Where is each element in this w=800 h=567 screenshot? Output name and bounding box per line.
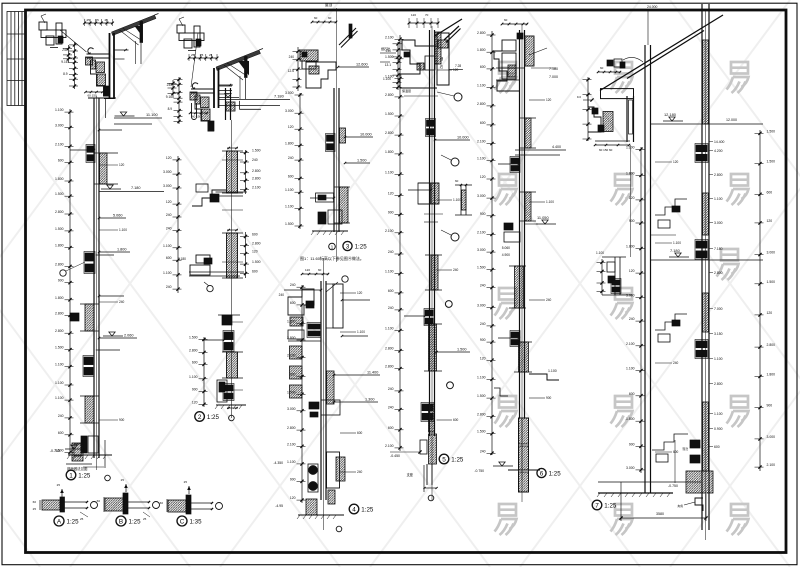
strip5 step leader — [529, 374, 559, 380]
d7 level line mid — [651, 259, 763, 261]
svg-text:3.000: 3.000 — [767, 251, 776, 255]
svg-text:1.500: 1.500 — [767, 129, 776, 133]
svg-text:900: 900 — [119, 418, 125, 422]
strip 5 wall — [474, 30, 566, 502]
svg-text:3.000: 3.000 — [477, 304, 486, 308]
svg-text:3.000: 3.000 — [626, 293, 635, 297]
svg-text:600: 600 — [480, 121, 486, 125]
chimney hatch segments — [703, 40, 709, 124]
E6 gutter bar — [601, 89, 634, 99]
strip2 beam blob — [222, 315, 232, 325]
strip5 window2 — [511, 332, 519, 338]
strip 3b dim row — [301, 268, 329, 275]
title binding table — [7, 12, 26, 106]
strip5 floor lines — [515, 149, 566, 151]
svg-text:1.500: 1.500 — [385, 112, 394, 116]
svg-text:900: 900 — [58, 279, 64, 283]
svg-text:1.500: 1.500 — [287, 390, 296, 394]
strip2 hatch column 1 — [227, 151, 238, 193]
svg-text:1.800: 1.800 — [55, 244, 64, 248]
svg-text:240: 240 — [388, 406, 394, 410]
svg-text:1:25: 1:25 — [67, 519, 80, 526]
extra leaders strip3b — [340, 292, 356, 294]
svg-text:1.800: 1.800 — [285, 142, 294, 146]
strip 1 wall — [50, 98, 164, 459]
E4 parapet column — [437, 33, 449, 85]
E6 column — [626, 96, 628, 142]
extra leaders strip1 — [99, 164, 118, 166]
strip3b window detail — [308, 324, 320, 329]
svg-text:120: 120 — [166, 200, 172, 204]
svg-text:240: 240 — [453, 268, 459, 272]
strip1 base hatch block — [72, 443, 83, 461]
svg-text:25: 25 — [87, 18, 91, 22]
strip 4 wall — [385, 30, 470, 492]
svg-text:1.100: 1.100 — [385, 170, 394, 174]
svg-text:1.100: 1.100 — [287, 460, 296, 464]
extra leaders strip5 — [529, 99, 545, 101]
svg-text:现浇: 现浇 — [682, 447, 688, 451]
svg-text:1.100: 1.100 — [477, 375, 486, 379]
svg-text:600: 600 — [288, 174, 294, 178]
svg-text:2.800: 2.800 — [189, 349, 198, 353]
strip2 left chain top — [177, 156, 179, 293]
svg-text:1.100: 1.100 — [714, 197, 723, 201]
svg-text:1.100: 1.100 — [546, 200, 554, 204]
svg-text:1.100: 1.100 — [385, 74, 394, 78]
strip4 slab cluster — [418, 183, 430, 204]
svg-text:图1：11.60标高以下参见图④做法。: 图1：11.60标高以下参见图④做法。 — [300, 255, 364, 261]
svg-text:900: 900 — [480, 212, 486, 216]
svg-text:3580: 3580 — [656, 512, 664, 516]
svg-text:2.800: 2.800 — [385, 131, 394, 135]
svg-text:2.800: 2.800 — [55, 311, 64, 315]
svg-text:900: 900 — [767, 404, 773, 408]
svg-text:-0.750: -0.750 — [668, 484, 678, 488]
plan detail B — [97, 478, 160, 521]
extra cross ticks strip2 — [222, 159, 243, 161]
E2 drain pipe — [191, 103, 193, 117]
svg-text:1.300: 1.300 — [365, 398, 375, 402]
strip3a base — [318, 212, 326, 224]
strip1 left slab — [85, 304, 94, 331]
svg-text:600: 600 — [388, 426, 394, 430]
svg-text:2.800: 2.800 — [55, 263, 64, 267]
detail label 5 — [439, 454, 449, 464]
svg-text:1.100: 1.100 — [477, 83, 486, 87]
svg-text:120: 120 — [192, 400, 198, 404]
E6 continuation — [630, 145, 632, 257]
svg-text:120: 120 — [673, 160, 679, 164]
svg-text:240: 240 — [119, 300, 125, 304]
svg-text:240: 240 — [480, 284, 486, 288]
svg-text:1.100: 1.100 — [55, 363, 64, 367]
svg-text:3.000: 3.000 — [626, 466, 635, 470]
svg-text:石: 石 — [440, 65, 443, 69]
section strip 1 axis — [96, 96, 98, 470]
svg-text:60: 60 — [160, 501, 164, 505]
svg-text:1: 1 — [69, 472, 73, 479]
svg-text:1.100: 1.100 — [55, 108, 64, 112]
svg-text:60: 60 — [504, 18, 508, 22]
svg-text:1.800: 1.800 — [385, 150, 394, 154]
svg-text:3.000: 3.000 — [714, 221, 723, 225]
strip5 lower hatched column — [519, 418, 529, 444]
strip4 roof diagonal — [444, 26, 459, 40]
svg-text:120: 120 — [629, 269, 635, 273]
strip2 tick row top — [227, 147, 238, 149]
eave detail E3 — [288, 16, 369, 91]
strip3b left hatch blocks — [290, 346, 303, 359]
svg-text:600: 600 — [290, 301, 296, 305]
svg-text:1.500: 1.500 — [55, 227, 64, 231]
svg-text:900: 900 — [480, 338, 486, 342]
strip3b base piers — [309, 466, 318, 475]
svg-text:屋顶: 屋顶 — [325, 2, 333, 7]
svg-text:11.400: 11.400 — [367, 371, 378, 375]
svg-text:1.100: 1.100 — [596, 251, 604, 255]
svg-text:2.800: 2.800 — [385, 347, 394, 351]
detail label 1 — [66, 470, 76, 480]
strip2 hatch column 2 — [227, 233, 238, 278]
svg-text:1.100: 1.100 — [285, 205, 294, 209]
svg-text:120: 120 — [166, 156, 172, 160]
svg-text:60: 60 — [455, 179, 459, 183]
svg-text:1.100: 1.100 — [163, 271, 172, 275]
svg-text:1.100: 1.100 — [453, 198, 461, 202]
strip 5 axis — [521, 24, 523, 480]
eave detail E1 — [39, 14, 162, 125]
svg-text:240: 240 — [166, 227, 172, 231]
strip2 right chain 1 — [245, 150, 247, 194]
svg-text:25: 25 — [121, 478, 125, 482]
svg-text:2.060: 2.060 — [124, 334, 134, 338]
svg-text:4.900: 4.900 — [502, 253, 510, 257]
svg-text:2.800: 2.800 — [385, 93, 394, 97]
svg-text:120: 120 — [767, 219, 773, 223]
svg-text:240: 240 — [673, 361, 679, 365]
svg-text:2: 2 — [198, 414, 202, 421]
svg-text:5.060: 5.060 — [113, 214, 123, 218]
strip1 lower slab — [85, 396, 94, 423]
strip1 level line 7.180 — [99, 191, 164, 193]
svg-text:8.9: 8.9 — [63, 72, 68, 76]
svg-text:1:25: 1:25 — [78, 473, 91, 480]
svg-text:3.000: 3.000 — [285, 109, 294, 113]
d7 step details between walls — [651, 199, 688, 462]
svg-text:2.800: 2.800 — [477, 102, 486, 106]
svg-text:1.800: 1.800 — [626, 245, 635, 249]
svg-text:7.180: 7.180 — [714, 247, 723, 251]
svg-text:1.500: 1.500 — [477, 394, 486, 398]
svg-text:900: 900 — [629, 219, 635, 223]
strip2 left chain low — [203, 337, 205, 407]
svg-text:B: B — [119, 518, 123, 525]
svg-text:120: 120 — [252, 250, 258, 254]
svg-text:3.000: 3.000 — [287, 407, 296, 411]
strip2 window1 — [224, 332, 233, 340]
strip3b sill — [309, 402, 319, 409]
svg-text:支座: 支座 — [407, 472, 414, 477]
svg-text:120: 120 — [453, 68, 459, 72]
svg-text:7.000: 7.000 — [549, 75, 558, 79]
svg-text:1.100: 1.100 — [477, 157, 486, 161]
svg-text:2.100: 2.100 — [626, 342, 635, 346]
d7 mid-left sill detail — [596, 251, 632, 295]
svg-text:240: 240 — [252, 158, 258, 162]
svg-text:1.100: 1.100 — [189, 375, 198, 379]
svg-text:11.050: 11.050 — [537, 215, 549, 220]
strip1 leader 2.060 — [99, 337, 137, 339]
svg-text:240: 240 — [388, 306, 394, 310]
svg-text:-4.350: -4.350 — [273, 461, 283, 465]
svg-text:1.100: 1.100 — [55, 381, 64, 385]
strip 4 axis — [431, 26, 433, 500]
svg-text:1.100: 1.100 — [626, 145, 635, 149]
svg-text:13.1: 13.1 — [385, 63, 391, 67]
svg-text:70: 70 — [425, 13, 429, 17]
svg-text:1:25: 1:25 — [355, 244, 368, 251]
d7 sill bottom — [690, 440, 700, 448]
svg-text:7.180: 7.180 — [549, 67, 558, 71]
svg-text:240: 240 — [386, 49, 392, 53]
detail label 6 — [537, 468, 546, 477]
svg-text:-0.450: -0.450 — [390, 454, 400, 458]
strip5 dims — [491, 31, 493, 455]
strip1 window w1 — [87, 146, 94, 152]
svg-text:600: 600 — [357, 431, 363, 435]
svg-text:600: 600 — [192, 360, 198, 364]
detail label 7 — [592, 500, 602, 510]
svg-text:60: 60 — [600, 66, 604, 70]
strip1 base — [81, 436, 87, 453]
svg-text:120: 120 — [290, 496, 296, 500]
section strip 2 axis — [231, 120, 233, 418]
d7 bottom dim — [620, 482, 622, 521]
svg-text:240: 240 — [388, 387, 394, 391]
E4 stepped profile — [400, 40, 437, 88]
svg-text:600: 600 — [629, 392, 635, 396]
svg-text:25: 25 — [200, 53, 204, 57]
svg-text:3.000: 3.000 — [163, 170, 172, 174]
svg-text:1.500: 1.500 — [457, 348, 467, 352]
strip2 base cluster — [217, 380, 227, 402]
svg-text:600: 600 — [58, 431, 64, 435]
svg-text:12.600: 12.600 — [356, 63, 368, 67]
svg-text:25: 25 — [143, 517, 147, 521]
svg-text:7.180: 7.180 — [274, 94, 285, 99]
strip3b dims — [301, 285, 303, 503]
svg-text:2.800: 2.800 — [767, 343, 776, 347]
svg-text:7.180: 7.180 — [670, 248, 681, 253]
E6 left blocks — [588, 95, 601, 132]
svg-text:240: 240 — [480, 322, 486, 326]
svg-text:1:35: 1:35 — [190, 519, 203, 526]
svg-text:1.500: 1.500 — [357, 159, 367, 163]
svg-text:600: 600 — [252, 270, 258, 274]
strip2 hatch column 3 — [227, 352, 238, 378]
svg-text:60: 60 — [314, 16, 318, 20]
svg-text:60: 60 — [328, 16, 332, 20]
strip2 tick row 2 — [227, 229, 238, 231]
strip4 window2 — [425, 310, 433, 316]
svg-text:1:25: 1:25 — [549, 471, 562, 478]
svg-text:900: 900 — [629, 442, 635, 446]
svg-text:2.100: 2.100 — [55, 142, 64, 146]
svg-text:2.100: 2.100 — [477, 140, 486, 144]
svg-text:1.100: 1.100 — [714, 357, 723, 361]
strip4 slab3 tall — [429, 324, 437, 371]
svg-text:600: 600 — [673, 450, 679, 454]
strip4 window1 — [427, 120, 435, 126]
strip3a right slab — [340, 187, 349, 223]
svg-text:2.100: 2.100 — [252, 186, 261, 190]
detail label B — [116, 516, 126, 526]
strip5 window1 — [511, 158, 519, 164]
mid channel detail M1 — [455, 179, 472, 215]
svg-text:600: 600 — [714, 445, 720, 449]
svg-text:1.800: 1.800 — [55, 296, 64, 300]
svg-text:1.500: 1.500 — [477, 266, 486, 270]
svg-text:2.800: 2.800 — [55, 210, 64, 214]
svg-text:120: 120 — [546, 98, 552, 102]
strip3b cornice cluster — [288, 289, 314, 315]
strip2 window2 — [224, 385, 233, 391]
svg-text:3: 3 — [346, 243, 350, 250]
svg-text:2.800: 2.800 — [714, 382, 723, 386]
svg-text:14.400: 14.400 — [714, 140, 724, 144]
chimney wall pair — [701, 4, 703, 530]
svg-text:600: 600 — [166, 256, 172, 260]
svg-text:-0.750: -0.750 — [474, 469, 484, 473]
svg-text:240: 240 — [279, 293, 285, 297]
svg-text:2.100: 2.100 — [385, 229, 394, 233]
strip4 slab2 — [431, 255, 438, 290]
svg-text:7.180: 7.180 — [178, 257, 186, 261]
svg-text:1.100: 1.100 — [385, 270, 394, 274]
strip3b slab — [327, 371, 335, 404]
svg-text:600: 600 — [252, 233, 258, 237]
strip5 level marks — [542, 220, 548, 224]
svg-text:2.800: 2.800 — [252, 176, 261, 180]
svg-text:4: 4 — [352, 506, 356, 513]
svg-text:1.100: 1.100 — [357, 330, 365, 334]
strip4 roof diagonal2 — [434, 19, 462, 37]
svg-text:1.500: 1.500 — [385, 55, 394, 59]
svg-text:夹角: 夹角 — [677, 504, 683, 508]
d7 bottom step bracket — [695, 498, 703, 511]
svg-text:5.060: 5.060 — [502, 246, 510, 250]
svg-text:24.000: 24.000 — [647, 5, 657, 9]
svg-text:5: 5 — [442, 456, 446, 463]
svg-text:12.180: 12.180 — [664, 112, 677, 117]
svg-text:2.800: 2.800 — [252, 169, 261, 173]
svg-text:1.100: 1.100 — [55, 396, 64, 400]
svg-text:2.100: 2.100 — [287, 442, 296, 446]
svg-text:3.000: 3.000 — [285, 91, 294, 95]
E2 right step down — [240, 101, 261, 109]
eave detail E2 — [166, 17, 290, 131]
strip1 slab hatch — [100, 153, 108, 184]
svg-text:1:25: 1:25 — [129, 519, 142, 526]
svg-text:1.100: 1.100 — [626, 367, 635, 371]
svg-text:6: 6 — [540, 470, 544, 477]
svg-text:1.500: 1.500 — [189, 336, 198, 340]
eave detail E5 — [494, 18, 558, 91]
strip3a slab — [340, 128, 346, 143]
svg-text:900: 900 — [546, 396, 552, 400]
svg-text:60: 60 — [318, 268, 322, 272]
d7 right dim chain — [759, 130, 761, 471]
svg-text:3.000: 3.000 — [767, 435, 776, 439]
svg-text:1:25: 1:25 — [361, 507, 374, 514]
eave detail E4 — [380, 13, 463, 96]
strip2 left balcony cluster — [196, 255, 210, 263]
svg-text:2.800: 2.800 — [477, 413, 486, 417]
svg-text:1.500: 1.500 — [252, 260, 261, 264]
svg-text:900: 900 — [290, 477, 296, 481]
svg-text:-4.95: -4.95 — [275, 504, 283, 508]
detail label 4 — [349, 504, 359, 514]
svg-text:240: 240 — [546, 298, 552, 302]
strip2 right chain 2 — [245, 232, 247, 278]
svg-text:A: A — [57, 518, 62, 525]
strip1 dim chain — [69, 109, 71, 455]
svg-text:1.500: 1.500 — [252, 149, 261, 153]
d7 base — [686, 471, 713, 493]
strip4 base — [429, 434, 437, 464]
svg-text:60 150 60: 60 150 60 — [599, 148, 613, 152]
d7 left wall dim chain — [640, 147, 642, 473]
detail label 2 — [195, 412, 205, 422]
svg-text:1:25: 1:25 — [207, 414, 220, 421]
svg-text:120: 120 — [288, 125, 294, 129]
svg-text:9.16: 9.16 — [61, 60, 67, 64]
svg-text:2.100: 2.100 — [287, 354, 296, 358]
svg-text:1.500: 1.500 — [767, 160, 776, 164]
svg-text:2.100: 2.100 — [385, 444, 394, 448]
svg-text:120: 120 — [480, 356, 486, 360]
svg-text:240: 240 — [167, 83, 173, 87]
svg-text:1.100: 1.100 — [548, 369, 557, 373]
svg-text:25: 25 — [209, 53, 213, 57]
svg-text:25: 25 — [80, 517, 84, 521]
svg-text:10.000: 10.000 — [360, 133, 372, 137]
svg-text:2.800: 2.800 — [385, 365, 394, 369]
plan detail C — [160, 480, 223, 514]
strip 3b axis — [323, 258, 325, 530]
eave detail E6 — [577, 57, 643, 257]
strip 3a wall — [285, 88, 373, 235]
svg-text:4.200: 4.200 — [714, 149, 723, 153]
svg-text:2.800: 2.800 — [477, 31, 486, 35]
svg-text:1.100: 1.100 — [673, 241, 681, 245]
strip4 window3 cluster — [422, 404, 433, 411]
strip1 window w3 — [84, 357, 93, 365]
svg-text:1.100: 1.100 — [163, 244, 172, 248]
svg-text:900: 900 — [192, 388, 198, 392]
strip3b lower window column — [327, 452, 340, 488]
svg-text:240: 240 — [629, 317, 635, 321]
svg-text:600: 600 — [453, 418, 459, 422]
svg-text:C: C — [180, 518, 185, 525]
svg-text:2.100: 2.100 — [767, 463, 776, 467]
svg-text:1.800: 1.800 — [626, 417, 635, 421]
extra leaders strip7 — [655, 161, 672, 163]
svg-text:120: 120 — [388, 191, 394, 195]
svg-text:240: 240 — [290, 283, 296, 287]
strip3a dims — [299, 93, 301, 229]
